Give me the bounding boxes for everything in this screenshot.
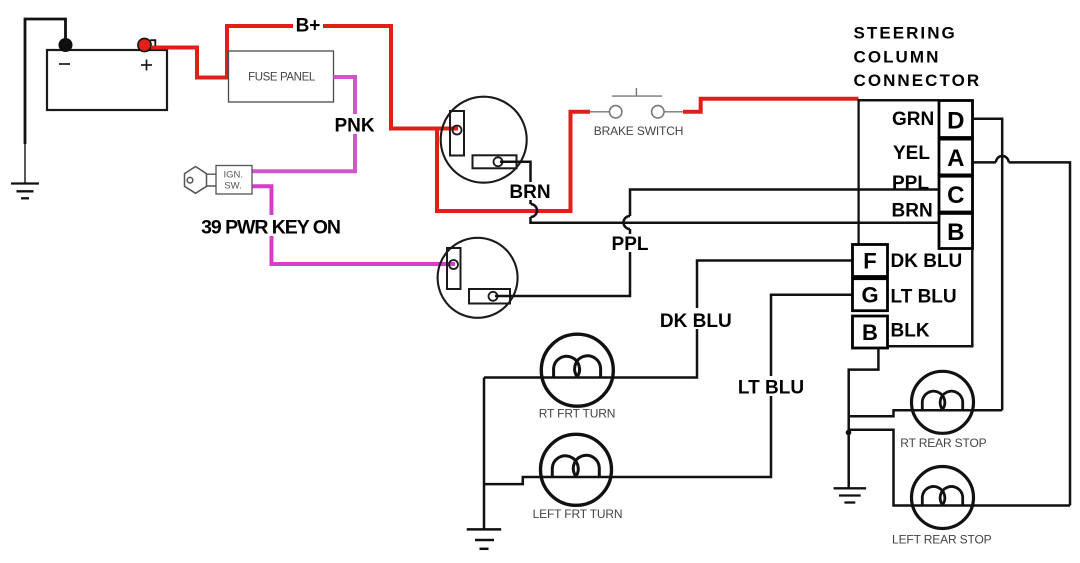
- label BLK pin: [891, 321, 930, 342]
- lamp LEFT FRT TURN: [533, 434, 623, 521]
- label DK BLU: [660, 308, 733, 332]
- svg-text:B: B: [947, 219, 964, 246]
- wire red battery positive to fuse panel: [151, 48, 229, 78]
- wire front lamps ground rail: [483, 378, 486, 530]
- svg-text:F: F: [863, 249, 876, 274]
- flasher U1: [441, 97, 527, 183]
- label B+: [293, 15, 323, 37]
- steering column connector title: [854, 24, 982, 91]
- connector pin B: [939, 213, 973, 248]
- svg-text:BRN: BRN: [892, 201, 933, 222]
- svg-text:39 PWR KEY ON: 39 PWR KEY ON: [201, 217, 340, 239]
- wire connector pin A to LEFT REAR STOP: [973, 156, 1071, 506]
- svg-text:PNK: PNK: [334, 116, 374, 137]
- svg-text:A: A: [947, 145, 964, 172]
- svg-text:IGN.: IGN.: [224, 170, 244, 181]
- ground front lamps: [467, 529, 502, 548]
- svg-text:DK BLU: DK BLU: [660, 311, 732, 332]
- wire BRN flasher U1 to connector pin B: [500, 162, 939, 223]
- lamp RT FRT TURN: [539, 334, 616, 421]
- svg-text:LT BLU: LT BLU: [738, 378, 804, 399]
- fuse panel: [229, 51, 334, 102]
- ground rear lamps: [834, 488, 867, 502]
- wire DK BLU connector pin F to RT FRT TURN: [484, 261, 853, 378]
- connector pin G: [853, 279, 888, 311]
- svg-text:PPL: PPL: [612, 234, 649, 255]
- label PPL pin: [892, 173, 929, 194]
- wire connector pin D to RT REAR STOP: [973, 119, 1003, 411]
- label PNK: [334, 114, 375, 137]
- connector pin A: [939, 139, 973, 175]
- svg-text:CONNECTOR: CONNECTOR: [854, 71, 982, 90]
- label GRN: [892, 109, 934, 130]
- battery: [47, 50, 167, 110]
- label BRN: [509, 182, 552, 203]
- svg-text:COLUMN: COLUMN: [854, 47, 941, 66]
- svg-text:D: D: [947, 107, 964, 134]
- lamp LEFT REAR STOP: [892, 467, 992, 547]
- connector pin F: [853, 245, 888, 277]
- label LT BLU: [737, 376, 804, 399]
- wire rear rail to LEFT REAR STOP: [849, 430, 1070, 506]
- connector pin C: [939, 176, 973, 212]
- wire LT BLU connector pin G to LEFT FRT TURN: [484, 295, 853, 484]
- label PPL mid: [611, 234, 650, 255]
- brake switch: [590, 88, 684, 138]
- junction dot rear rail: [846, 430, 852, 436]
- label BRN pin: [892, 201, 933, 222]
- svg-text:G: G: [861, 283, 878, 308]
- svg-text:SW.: SW.: [224, 181, 241, 192]
- svg-text:B: B: [862, 320, 878, 345]
- label 39 PWR KEY ON: [200, 215, 342, 239]
- label LT BLU pin: [891, 287, 957, 308]
- svg-text:DK BLU: DK BLU: [891, 251, 963, 272]
- svg-text:FUSE PANEL: FUSE PANEL: [248, 72, 316, 84]
- ground battery: [11, 184, 39, 199]
- key: [185, 167, 217, 194]
- label YEL: [893, 143, 930, 164]
- flasher U2: [438, 238, 518, 318]
- svg-text:YEL: YEL: [893, 143, 930, 164]
- svg-text:LEFT FRT TURN: LEFT FRT TURN: [533, 507, 623, 521]
- lamp RT REAR STOP: [900, 371, 986, 450]
- svg-text:STEERING: STEERING: [854, 24, 957, 43]
- svg-text:LT BLU: LT BLU: [891, 287, 957, 308]
- svg-text:GRN: GRN: [892, 109, 934, 130]
- svg-text:BLK: BLK: [891, 321, 930, 342]
- svg-text:RT FRT TURN: RT FRT TURN: [539, 407, 616, 421]
- connector pin D: [939, 101, 973, 138]
- connector pin B lower: [853, 316, 888, 348]
- battery negative terminal: [59, 38, 73, 52]
- wire rear rail to RT REAR STOP: [849, 410, 1003, 416]
- svg-text:C: C: [947, 182, 964, 209]
- svg-text:BRN: BRN: [509, 182, 550, 203]
- svg-text:RT REAR STOP: RT REAR STOP: [900, 436, 986, 450]
- wire BLK pin B to rear ground rail: [849, 348, 879, 488]
- wire magenta 39 PWR KEY ON ignition switch to flasher U2: [253, 186, 456, 264]
- label DK BLU pin: [891, 251, 963, 272]
- wire pink PNK fuse panel to ignition switch: [253, 77, 356, 171]
- ignition switch IGN SW: [216, 166, 252, 195]
- wire red B+ from fuse panel junction to flasher U1: [227, 26, 590, 211]
- svg-text:B+: B+: [296, 16, 321, 37]
- wire PPL flasher U2 to connector pin C: [495, 190, 939, 297]
- battery positive terminal: [138, 38, 155, 51]
- svg-text:PPL: PPL: [892, 173, 929, 194]
- wire red brake switch to steering column connector: [683, 99, 859, 112]
- steering column connector outline: [858, 100, 973, 346]
- svg-text:LEFT REAR STOP: LEFT REAR STOP: [892, 532, 992, 546]
- svg-text:BRAKE SWITCH: BRAKE SWITCH: [594, 124, 684, 138]
- wire battery negative to ground: [25, 19, 66, 183]
